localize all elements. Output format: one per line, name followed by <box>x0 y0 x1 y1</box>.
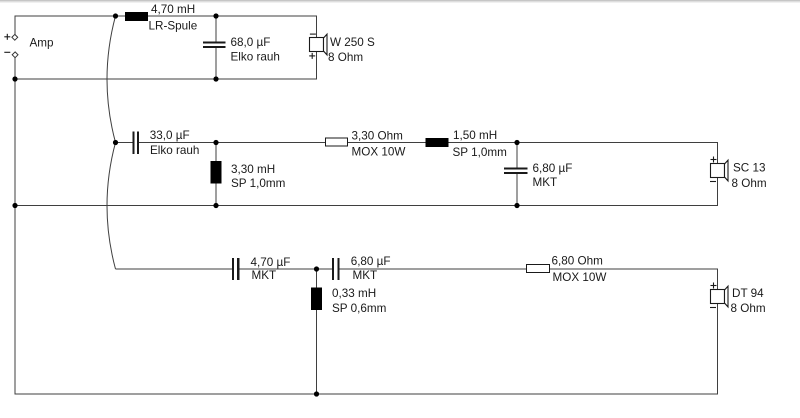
svg-text:DT 94: DT 94 <box>732 287 764 300</box>
node mid feed / curve junction <box>113 140 118 145</box>
wire C68 top lead <box>215 16 217 42</box>
amp plus terminal <box>4 34 17 40</box>
node mid feed / C3 tap <box>514 140 519 145</box>
wire curved branch mid-to-tweeter <box>107 143 116 270</box>
wire left column <box>14 58 16 395</box>
wire mid feed seg1 <box>116 142 133 144</box>
capacitor C1 68,0uF <box>203 42 226 48</box>
svg-text:3,30 Ohm: 3,30 Ohm <box>352 130 403 143</box>
inductor L2 3,30mH shunt <box>211 161 222 184</box>
node woofer return / left column <box>12 76 17 81</box>
capacitor C3 6,80uF shunt <box>504 168 528 174</box>
wire mid shunt cap top lead <box>516 143 518 169</box>
node woofer feed / curve tap <box>113 13 118 18</box>
svg-text:MKT: MKT <box>533 176 558 189</box>
speaker W 250 S <box>309 34 327 59</box>
svg-text:MKT: MKT <box>353 269 378 282</box>
capacitor C4 4,70uF series <box>232 258 239 280</box>
wire woofer speaker drop top <box>316 16 318 38</box>
wire tweeter shunt inductor lead <box>316 269 318 394</box>
svg-text:0,33 mH: 0,33 mH <box>332 287 376 300</box>
wire mid speaker drop top <box>717 143 719 164</box>
node mid feed / L2 tap <box>213 140 218 145</box>
svg-text:68,0 µF: 68,0 µF <box>231 36 271 49</box>
window top edge strip <box>0 0 800 1</box>
svg-text:4,70 µF: 4,70 µF <box>251 256 291 269</box>
svg-text:Elko rauh: Elko rauh <box>150 144 199 157</box>
svg-text:33,0 µF: 33,0 µF <box>150 129 190 142</box>
svg-text:8 Ohm: 8 Ohm <box>731 302 766 315</box>
wire curved branch top-to-mid <box>107 16 116 143</box>
node tweeter feed / L4 tap <box>314 266 319 271</box>
capacitor C2 33,0uF series <box>133 132 140 155</box>
wire woofer return <box>15 78 318 80</box>
wire woofer speaker drop bottom <box>316 52 318 80</box>
svg-text:3,30 mH: 3,30 mH <box>231 163 275 176</box>
svg-text:1,50 mH: 1,50 mH <box>453 129 497 142</box>
wire mid feed seg2 <box>139 142 718 144</box>
wire tweeter feed seg1 <box>116 268 233 270</box>
wire C68 bottom lead <box>215 48 217 80</box>
wire bottom rail <box>15 393 719 395</box>
svg-text:4,70 mH: 4,70 mH <box>151 3 195 16</box>
wire mid shunt cap bottom lead <box>516 174 518 206</box>
node bottom rail / L4 <box>314 391 319 396</box>
svg-text:SP 1,0mm: SP 1,0mm <box>231 177 285 190</box>
capacitor C5 6,80uF series <box>332 258 340 280</box>
svg-text:8 Ohm: 8 Ohm <box>732 177 767 190</box>
node woofer return / C68 <box>213 76 218 81</box>
wire tweeter speaker drop top <box>717 269 719 290</box>
resistor R1 3,30 Ohm <box>326 138 348 146</box>
resistor R2 6,80 Ohm <box>527 265 550 273</box>
inductor L1 4,70mH <box>125 12 148 21</box>
node woofer feed / C68 tap <box>213 13 218 18</box>
wire tweeter speaker drop bottom <box>717 304 719 395</box>
svg-text:Amp: Amp <box>30 36 55 49</box>
svg-text:SP 0,6mm: SP 0,6mm <box>332 302 386 315</box>
wire mid shunt inductor lead <box>215 143 217 206</box>
speaker SC 13 <box>710 157 728 182</box>
amp minus terminal <box>4 52 18 58</box>
svg-text:Elko rauh: Elko rauh <box>231 50 280 63</box>
node mid return / left column <box>12 203 17 208</box>
speaker DT 94 <box>710 283 728 308</box>
svg-text:LR-Spule: LR-Spule <box>149 20 198 33</box>
svg-text:6,80 µF: 6,80 µF <box>533 162 573 175</box>
svg-text:8 Ohm: 8 Ohm <box>328 51 363 64</box>
svg-text:6,80 Ohm: 6,80 Ohm <box>552 255 603 268</box>
wire mid return <box>15 205 719 207</box>
svg-text:MOX 10W: MOX 10W <box>553 271 607 284</box>
inductor L3 1,50mH series <box>426 138 449 147</box>
svg-text:SP 1,0mm: SP 1,0mm <box>453 146 507 159</box>
wire tweeter feed seg3 <box>340 268 719 270</box>
svg-text:SC 13: SC 13 <box>733 162 765 175</box>
inductor L4 0,33mH shunt <box>311 288 322 311</box>
node mid return / C3 <box>514 203 519 208</box>
wire woofer feed <box>15 15 318 17</box>
wire mid speaker drop bottom <box>717 178 719 206</box>
svg-text:6,80 µF: 6,80 µF <box>351 255 391 268</box>
wire amp plus riser <box>14 16 16 35</box>
wire tweeter feed seg2 <box>240 268 333 270</box>
svg-text:MKT: MKT <box>252 269 277 282</box>
node mid return / L2 <box>213 203 218 208</box>
node dots <box>12 13 519 396</box>
svg-text:W 250 S: W 250 S <box>330 36 375 49</box>
svg-text:MOX 10W: MOX 10W <box>352 145 406 158</box>
